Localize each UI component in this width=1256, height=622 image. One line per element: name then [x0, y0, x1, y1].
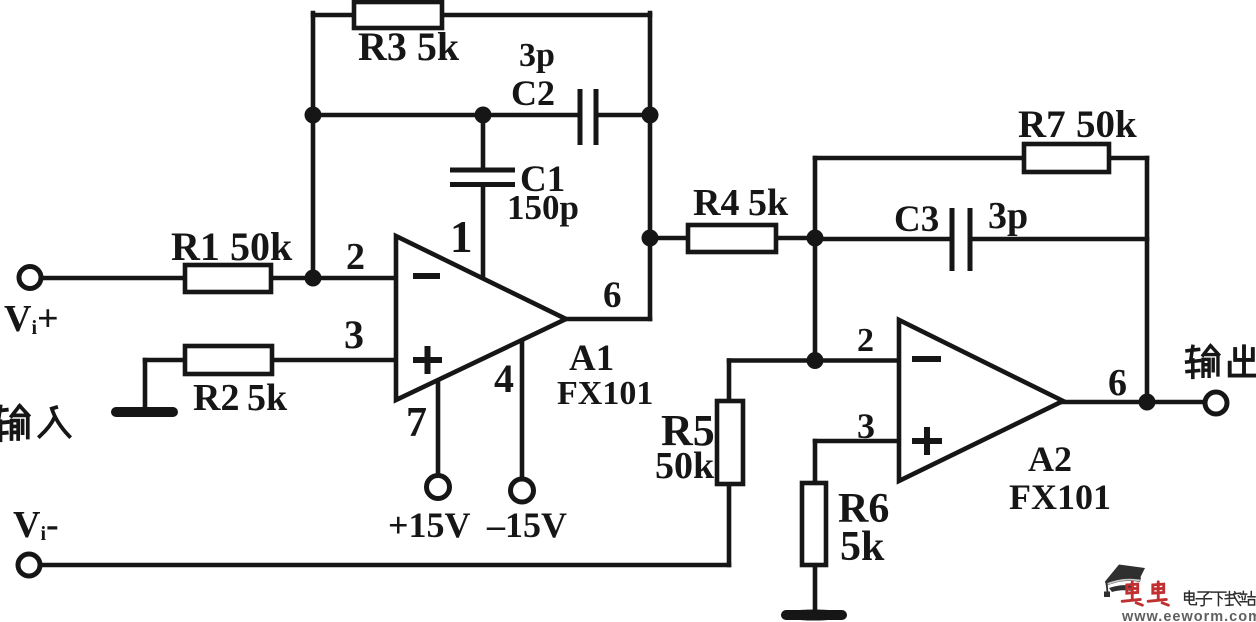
label pin 6 A2 [1108, 362, 1127, 404]
node dot C1 top [475, 107, 492, 124]
label pin 3 A1 [344, 312, 364, 357]
node dot right feedback / mid wire [642, 107, 659, 124]
label 输入 (input) [0, 406, 69, 440]
capacitor C1 [450, 170, 515, 185]
label 3p (C3) [988, 195, 1028, 237]
svg-text:3p: 3p [519, 37, 555, 74]
wire R7 left [815, 156, 1024, 161]
label C2 [511, 73, 555, 113]
resistor R1 [185, 265, 271, 292]
svg-text:4: 4 [494, 356, 514, 401]
label R5 [661, 406, 715, 455]
resistor R6 [802, 483, 826, 565]
label pin 2 A1 [346, 236, 365, 278]
label pin 4 A1 [494, 356, 514, 401]
wire A1 output [565, 317, 650, 322]
terminal -15V [511, 479, 534, 502]
svg-text:5k: 5k [247, 377, 288, 419]
wire R7 right [1109, 156, 1147, 161]
wire R2 ground drop [143, 360, 148, 408]
svg-text:50k: 50k [655, 445, 715, 487]
svg-text:6: 6 [603, 275, 622, 316]
wire mid feedback horizontal to C2 [313, 113, 580, 118]
capacitor C3 [952, 208, 970, 271]
wire R2 left stub [145, 358, 185, 363]
label A2 [1028, 439, 1072, 479]
label 150p [507, 188, 579, 227]
svg-text:Vi-: Vi- [13, 504, 59, 546]
wire R4 right [776, 236, 815, 241]
svg-text:50k: 50k [1076, 103, 1137, 146]
svg-text:150p: 150p [507, 188, 579, 227]
wire A2 output [1063, 400, 1204, 405]
node dot A1 output / R4 [642, 230, 659, 247]
wire right feedback vertical [648, 13, 653, 319]
label C3 [894, 199, 939, 240]
svg-text:C3: C3 [894, 199, 939, 240]
wire A2 node vertical [813, 158, 818, 361]
capacitor C2 [580, 89, 596, 145]
svg-text:R1: R1 [171, 224, 220, 269]
svg-text:A2: A2 [1028, 439, 1072, 479]
ground R6 [781, 610, 847, 621]
label 50k (R5) [655, 445, 715, 487]
wire A1 pin 7 drop [436, 381, 441, 475]
wire R6 ground drop [813, 565, 818, 610]
wire A2 pin 2 [815, 358, 899, 363]
svg-text:6: 6 [1108, 362, 1127, 404]
wire C1 stem top [481, 115, 486, 168]
wire A1 pin 4 drop [520, 341, 525, 478]
label FX101 (A2) [1009, 477, 1111, 517]
wire R5 bottom drop [727, 484, 732, 565]
label 3p (C2) [519, 37, 555, 74]
wire C2 to right vertical [596, 113, 650, 118]
wire R6 top drop [813, 441, 818, 483]
op-amp A1 [396, 236, 566, 400]
svg-text:R7: R7 [1018, 103, 1066, 146]
label R1 50k [171, 224, 293, 269]
label pin 7 A1 [406, 400, 427, 446]
node dot R4 / A2 input [807, 230, 824, 247]
resistor R4 [688, 225, 776, 252]
terminal output [1205, 392, 1227, 414]
svg-text:50k: 50k [230, 224, 293, 269]
resistor R2 [185, 346, 272, 374]
wire left feedback vertical [311, 13, 316, 278]
label +15V [388, 505, 471, 545]
label R6 [838, 486, 889, 532]
svg-text:R3 5k: R3 5k [358, 24, 460, 69]
svg-text:R4: R4 [693, 182, 739, 224]
label pin 3 A2 [857, 406, 875, 446]
resistor R5 [717, 401, 743, 484]
label R4 5k [693, 182, 789, 224]
wire top-left to R3 [313, 13, 356, 18]
node dot A1 pin 2 [305, 270, 322, 287]
terminal Vi+ [19, 267, 41, 289]
label Vi- [13, 504, 59, 546]
op-amp A2 [899, 320, 1063, 481]
node dot A2 output [1139, 394, 1156, 411]
op-amp A1 plus sign [413, 346, 442, 374]
label pin 1 A1 [450, 212, 473, 262]
wire Vi+ to R1 [43, 276, 185, 281]
watermark graduation cap logo [1104, 565, 1145, 598]
op-amp A2 minus sign [912, 356, 941, 362]
terminal +15V [427, 476, 450, 499]
node dot A2 pin 2 / R5 [807, 352, 824, 369]
op-amp A1 minus sign [413, 273, 440, 279]
svg-text:–15V: –15V [486, 505, 567, 545]
resistor R7 [1024, 144, 1109, 172]
label R7 50k [1018, 103, 1137, 146]
wire R2 to A1 pin 3 [272, 358, 396, 363]
label -15V [486, 505, 567, 545]
wire R5 top drop [727, 361, 732, 402]
label pin 2 A2 [857, 322, 874, 359]
terminal Vi- [18, 554, 40, 576]
resistor R3 [354, 2, 442, 28]
svg-text:A1: A1 [569, 338, 614, 379]
svg-text:3: 3 [857, 406, 875, 446]
wire R1 to A1 pin 2 [271, 276, 396, 281]
label FX101 (A1) [557, 375, 653, 412]
watermark www.eeworm.com [1121, 609, 1256, 622]
svg-text:1: 1 [450, 212, 473, 262]
watermark 电子下载站 characters [1185, 591, 1255, 606]
svg-text:R2: R2 [193, 377, 239, 419]
wire A2 pin 3 [815, 439, 899, 444]
svg-text:+15V: +15V [388, 505, 471, 545]
svg-text:5k: 5k [840, 524, 885, 570]
wire R4 left [650, 236, 688, 241]
ground R2 [116, 407, 173, 417]
wire Vi- long run [42, 563, 729, 568]
svg-text:2: 2 [346, 236, 365, 278]
svg-text:3p: 3p [988, 195, 1028, 237]
svg-text:FX101: FX101 [1009, 477, 1111, 517]
wire R3 to right vertical [441, 13, 650, 18]
svg-text:2: 2 [857, 322, 874, 359]
label R2 5k [193, 377, 288, 419]
label A1 [569, 338, 614, 379]
svg-text:www.eeworm.com: www.eeworm.com [1121, 609, 1256, 622]
node dot left feedback / mid wire [305, 107, 322, 124]
wire output feedback vertical [1145, 158, 1150, 402]
label 5k (R6) [840, 524, 885, 570]
label 输出 (output) [1187, 346, 1256, 378]
svg-text:FX101: FX101 [557, 375, 653, 412]
svg-text:3: 3 [344, 312, 364, 357]
op-amp A2 plus sign [912, 427, 942, 455]
label C1 [520, 159, 565, 200]
label pin 6 A1 [603, 275, 622, 316]
wire C3 left [815, 237, 952, 242]
wire C1 stem to pin 1 [481, 186, 486, 278]
svg-text:C2: C2 [511, 73, 555, 113]
wire node to R5 horizontal [729, 358, 815, 363]
svg-text:Vi+: Vi+ [4, 298, 59, 340]
watermark 虫虫 red characters [1122, 582, 1168, 605]
wire C3 right [970, 237, 1147, 242]
svg-text:5k: 5k [748, 182, 789, 224]
svg-text:7: 7 [406, 400, 427, 446]
label Vi+ [4, 298, 59, 340]
label R3 5k [358, 24, 460, 69]
